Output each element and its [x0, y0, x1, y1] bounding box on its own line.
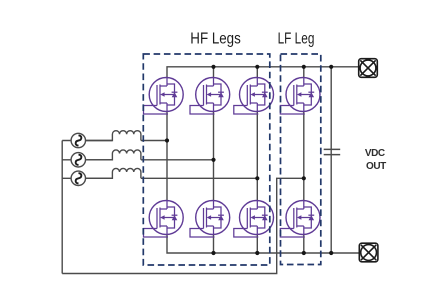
svg-text:OUT: OUT	[366, 161, 386, 172]
inductor L1	[85, 131, 140, 141]
DC link capacitor C1 branch	[330, 67, 332, 253]
MOSFET Q5 (top, leg 3)	[234, 77, 274, 114]
svg-text:VDC: VDC	[365, 148, 385, 159]
capacitor C1 plates	[324, 149, 341, 154]
svg-text:HF Legs: HF Legs	[190, 30, 241, 47]
MOSFET Q6 (bottom, leg 3)	[234, 200, 274, 237]
phase 2 wire	[62, 159, 213, 161]
AC source V3	[71, 171, 85, 185]
MOSFET Q2 (bottom, leg 1)	[144, 200, 184, 237]
inductor L2	[85, 150, 140, 160]
MOSFET Q7 (top, leg 4)	[280, 77, 320, 114]
bottom DC- rail	[167, 234, 359, 253]
LF Leg dashed boundary box	[281, 54, 321, 265]
phase 3 wire	[62, 177, 257, 179]
AC source V2	[71, 153, 85, 167]
MOSFET Q1 (top, leg 1)	[144, 77, 184, 114]
svg-text:LF Leg: LF Leg	[278, 30, 315, 47]
output terminal DC- (bottom)	[359, 243, 378, 262]
bottom source stubs legs 2-4	[214, 234, 304, 253]
top rail drain stubs legs 2-4	[214, 67, 304, 78]
output terminal DC+ (top)	[359, 59, 378, 78]
HF Legs dashed boundary box	[143, 54, 269, 265]
top DC+ rail	[167, 67, 359, 78]
phase 1 wire	[62, 140, 167, 142]
leg midpoint vertical wires	[167, 112, 304, 202]
MOSFET Q3 (top, leg 2)	[190, 77, 230, 114]
AC source V1	[71, 133, 85, 147]
inductor L3	[85, 168, 140, 178]
left AC neutral bus	[61, 141, 63, 274]
neutral return wire to LF midpoint	[62, 178, 304, 273]
MOSFET Q4 (bottom, leg 2)	[190, 200, 230, 237]
MOSFET Q8 (bottom, leg 4)	[280, 200, 320, 237]
